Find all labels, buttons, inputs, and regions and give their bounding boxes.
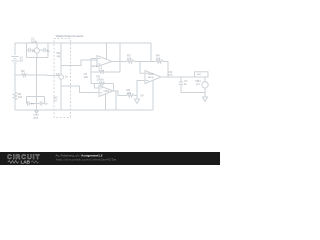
wire node between sensor boxes [36, 58, 38, 76]
wire OA2 feedback up [113, 84, 115, 92]
wire OA3 output [161, 76, 205, 78]
wire VM1 top lead [204, 77, 206, 82]
wire sensor top box mid rail between [31, 49, 35, 51]
footer bar [0, 152, 220, 165]
svg-text:4.7n: 4.7n [99, 68, 105, 72]
logo CIRCUIT LAB [7, 154, 40, 166]
tiny text labels (scaled 0.5) [18, 34, 201, 120]
wire OA1 minus loop [91, 59, 97, 73]
resistor R in1 [127, 60, 134, 63]
capacitor C top box left [28, 48, 30, 52]
wire OA1 output to R3 [120, 61, 127, 63]
svg-text:sig: sig [57, 54, 61, 58]
svg-text:10k: 10k [127, 57, 132, 61]
ground flag at plus node [136, 96, 138, 100]
wire cable tap to OA2 [61, 86, 99, 93]
wire top rail drop to minus node [150, 43, 152, 62]
wire OA2 out down [115, 91, 117, 110]
wire top rail [15, 42, 151, 44]
wire into OA3 minus [140, 62, 145, 74]
resistor R2 [22, 73, 27, 76]
wire feedback box top edge [91, 71, 120, 73]
resistor R in2 [127, 94, 134, 97]
wire mid horizontal y75 [15, 74, 22, 76]
wire R3 to R4 [134, 61, 156, 63]
wire R6 to plus node [134, 95, 137, 97]
wire sensor centre stub lower [36, 53, 38, 57]
wire OA3 supply down [152, 80, 154, 110]
svg-text:http://circuitlab.com/c/trhvk3: http://circuitlab.com/c/trhvk3an4j75w [56, 158, 117, 162]
svg-text:100p: 100p [31, 40, 38, 44]
wire bottom bus [15, 109, 153, 111]
battery V1 [12, 56, 19, 58]
svg-text:OA2: OA2 [104, 89, 110, 93]
svg-text:10k: 10k [127, 91, 132, 95]
net flag box out [195, 72, 209, 77]
svg-text:1M: 1M [18, 95, 23, 99]
wire feedback box bottom edge left [91, 83, 95, 85]
ground flag below bus [36, 110, 38, 111]
svg-text:ret: ret [54, 99, 57, 103]
wire sensor top box mid rail right [46, 49, 48, 51]
wire left rail lower [14, 101, 16, 110]
wire OA2 minus loop [95, 84, 100, 89]
wire mid horizontal y75 right part [27, 74, 60, 76]
wire VM1 bottom lead [204, 88, 206, 93]
svg-text:10k: 10k [156, 57, 161, 61]
wire left rail mid [14, 64, 16, 92]
wire output bottom [181, 92, 205, 94]
wire sensor top box mid rail left [27, 49, 29, 51]
wire cable conductor lower [60, 79, 62, 110]
wire node A vertical [119, 43, 121, 72]
resistor R1 [13, 92, 17, 101]
svg-text:amp: amp [148, 75, 154, 79]
wire sensor top box left edge [26, 43, 28, 58]
svg-text:LAB: LAB [21, 160, 31, 165]
svg-text:1n: 1n [65, 75, 69, 79]
capacitor C bottom box right [39, 101, 41, 105]
svg-text:10n: 10n [84, 75, 89, 79]
svg-text:0V: 0V [141, 94, 145, 98]
wire sensor centre stub upper [36, 43, 38, 48]
capacitor C top box right [43, 48, 45, 52]
wire plus node up [137, 81, 145, 96]
capacitor on box top edge [100, 70, 102, 74]
svg-text:Shielded Twisted Conductor: Shielded Twisted Conductor [56, 34, 84, 38]
svg-text:(V): (V) [196, 82, 200, 86]
svg-text:1n: 1n [47, 49, 51, 53]
capacitor C bottom box left [27, 101, 29, 105]
footer text [56, 154, 117, 162]
svg-text:out: out [169, 73, 173, 77]
svg-text:1n: 1n [32, 49, 36, 53]
svg-text:R2: R2 [21, 69, 25, 73]
wire sensor bottom box top rail [27, 95, 45, 97]
svg-text:5V: 5V [20, 59, 24, 63]
svg-text:100M: 100M [97, 78, 105, 82]
resistor R feedback [156, 60, 163, 63]
resistor on box bottom edge [99, 82, 105, 85]
wire sensor bottom box cap rail [26, 102, 29, 104]
wire OA2 supply down [105, 94, 107, 111]
wire left rail upper [14, 43, 16, 55]
svg-text:gnd: gnd [34, 116, 39, 120]
wire feedback box bottom edge right [95, 83, 114, 85]
wire sensor top box right edge [47, 43, 49, 58]
svg-text:OA1: OA1 [92, 64, 98, 68]
shield dashed box [54, 39, 71, 118]
wire cable tap to OA1 [61, 60, 98, 66]
svg-text:out: out [197, 72, 201, 76]
op-amp OA3 [145, 71, 161, 84]
capacitor C7 output [180, 77, 182, 82]
cable cap circle [59, 75, 64, 80]
svg-text:C5: C5 [56, 72, 60, 76]
op-amp OA1 [97, 56, 112, 67]
source circle top box centre [34, 48, 39, 53]
wire sensor bottom box right edge [43, 96, 45, 103]
wire OA2 output [113, 91, 127, 96]
svg-text:1n: 1n [45, 102, 49, 106]
wire R4 to output node [163, 62, 168, 78]
wire feedback box left edge [90, 72, 92, 84]
wire cable conductor upper [60, 43, 62, 75]
svg-text:1n: 1n [31, 102, 35, 106]
wire sensor bottom box left edge [26, 96, 28, 103]
op-amp OA2 [99, 86, 113, 97]
ground flag output [204, 93, 206, 98]
wire sensor top box bottom rail [27, 57, 49, 59]
wire OA1 supply stub [106, 43, 108, 59]
voltmeter VM1 [202, 82, 208, 88]
wire lower sensor stub [36, 75, 38, 110]
svg-text:1u: 1u [184, 82, 188, 86]
svg-text:Av_Polarizing_ult / Assignment: Av_Polarizing_ult / Assignment1.2 [56, 154, 103, 158]
wire OA1 output [112, 61, 120, 63]
